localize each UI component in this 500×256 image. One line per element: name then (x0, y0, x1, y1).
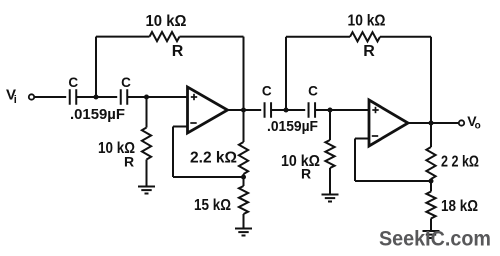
svg-text:15 kΩ: 15 kΩ (194, 197, 231, 214)
svg-text:C: C (262, 84, 272, 99)
svg-text:o: o (475, 121, 481, 132)
svg-text:2 2 kΩ: 2 2 kΩ (441, 154, 479, 171)
svg-text:10 kΩ: 10 kΩ (348, 13, 386, 30)
svg-text:C: C (121, 75, 131, 90)
svg-text:SeekIC.com: SeekIC.com (379, 227, 491, 251)
svg-text:i: i (14, 94, 17, 106)
svg-text:R: R (301, 166, 311, 182)
svg-text:2.2 kΩ: 2.2 kΩ (190, 150, 237, 167)
svg-text:R: R (124, 154, 134, 170)
svg-text:.0159µF: .0159µF (267, 118, 318, 135)
svg-text:C: C (308, 84, 318, 99)
svg-text:C: C (68, 75, 78, 90)
svg-text:R: R (363, 43, 375, 60)
svg-text:R: R (172, 43, 184, 60)
svg-text:10 kΩ: 10 kΩ (146, 13, 187, 30)
svg-text:.0159µF: .0159µF (70, 106, 125, 123)
svg-text:18 kΩ: 18 kΩ (441, 198, 478, 215)
